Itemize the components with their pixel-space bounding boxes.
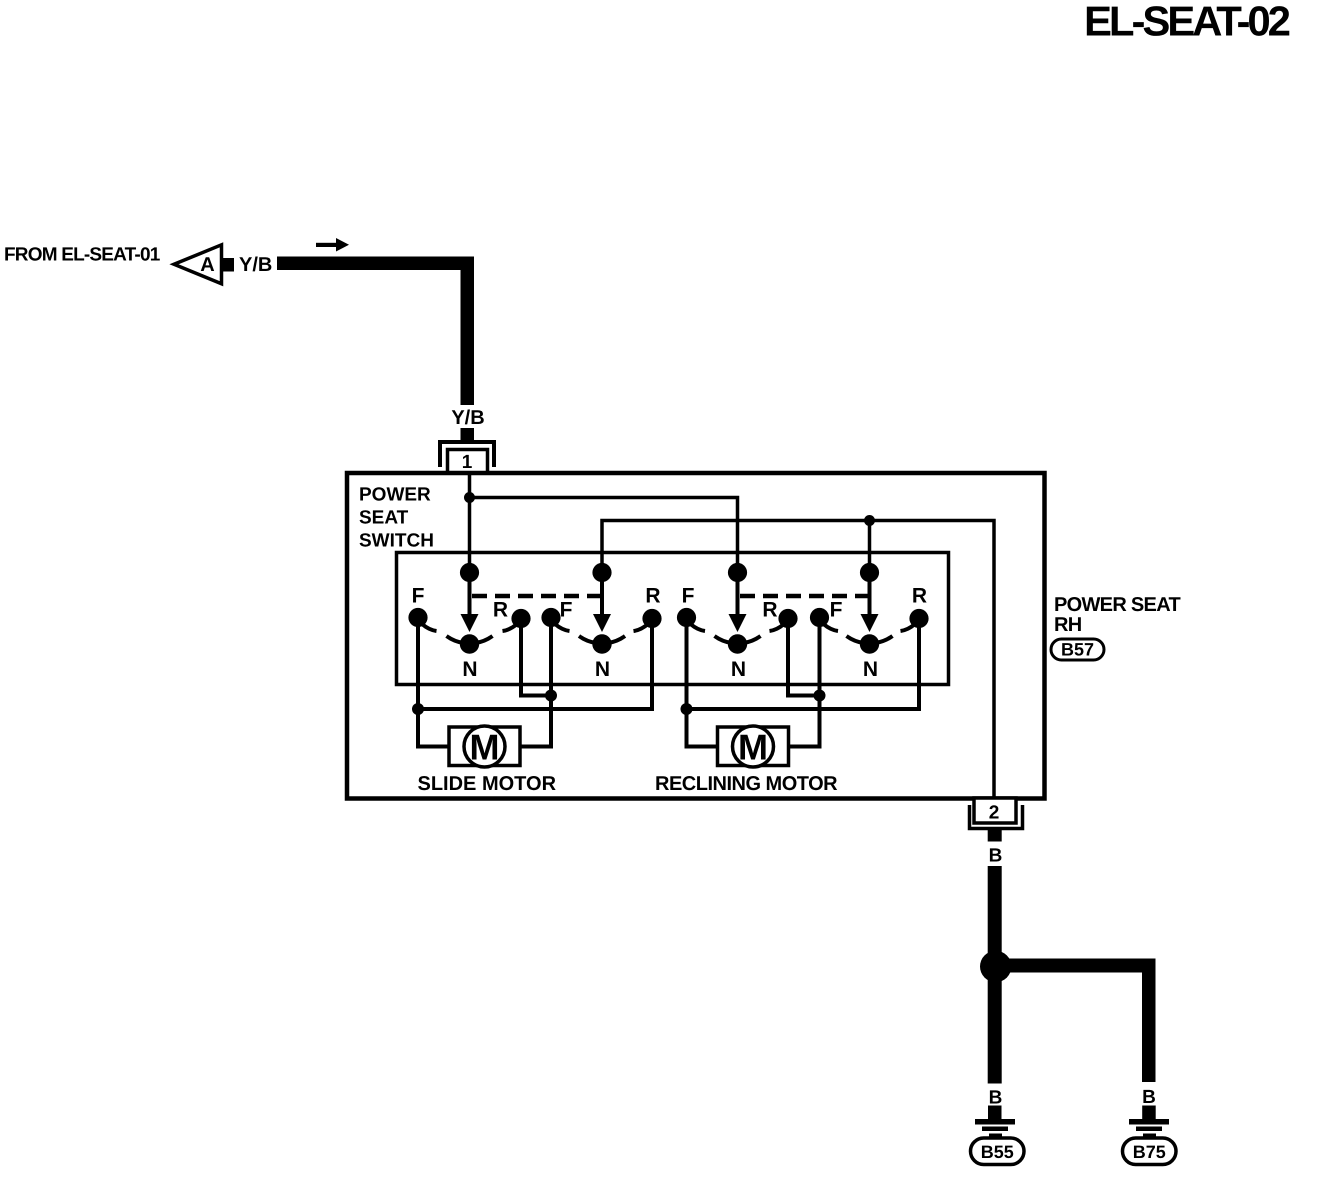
S1 N whiskers bbox=[447, 636, 464, 643]
svg-text:SWITCH: SWITCH bbox=[359, 531, 434, 552]
S3 contact F dot bbox=[677, 608, 696, 627]
S4 contact N dot bbox=[860, 634, 879, 653]
S1 contact F dot bbox=[408, 608, 427, 627]
svg-text:FROM EL-SEAT-01: FROM EL-SEAT-01 bbox=[4, 245, 161, 266]
wire pin 1 feed down bbox=[468, 473, 472, 572]
junction J2 on line B bbox=[864, 515, 875, 526]
junction J3 (F1/R2 to slide motor) bbox=[412, 703, 424, 715]
ground stub right bbox=[1142, 1106, 1156, 1120]
label POWER SEAT SWITCH bbox=[359, 485, 434, 552]
wire feed line B (switches S2,S4 to pin 2) bbox=[602, 521, 994, 799]
wire stub below connector 2 bbox=[988, 830, 1002, 842]
S4 contact F dot bbox=[810, 608, 829, 627]
svg-text:2: 2 bbox=[989, 803, 1000, 824]
S2 contact R dot bbox=[642, 609, 661, 628]
S1 F whisker bbox=[422, 624, 437, 631]
switch S3 (recline fwd) bbox=[677, 563, 798, 681]
wire J5 to R4 bbox=[687, 617, 920, 709]
S4 N whiskers bbox=[847, 636, 864, 643]
svg-text:B: B bbox=[989, 1088, 1003, 1109]
junction J1 bbox=[464, 492, 475, 503]
svg-text:R: R bbox=[762, 599, 777, 622]
reclining motor M2 bbox=[718, 726, 789, 768]
switch S2 (slide rev) bbox=[541, 563, 661, 681]
svg-text:Y/B: Y/B bbox=[451, 407, 484, 429]
svg-text:M: M bbox=[738, 727, 768, 768]
wire J3 to slide motor left bbox=[418, 709, 449, 747]
svg-text:R: R bbox=[645, 585, 660, 608]
wire J3 to R2 bbox=[418, 617, 652, 709]
svg-text:F: F bbox=[560, 599, 573, 622]
connector id B57 bbox=[1051, 639, 1104, 660]
svg-text:B57: B57 bbox=[1061, 640, 1094, 660]
connector 1 outer shield bbox=[440, 442, 494, 467]
wire to B55 (thick, left down) bbox=[988, 979, 1002, 1084]
S3 feed contact dot bbox=[728, 563, 747, 582]
S1 R whisker bbox=[503, 624, 518, 631]
svg-text:F: F bbox=[412, 585, 425, 608]
svg-text:M: M bbox=[470, 727, 500, 768]
ground id B55 bbox=[971, 1138, 1025, 1165]
wire S3-R down bbox=[788, 617, 820, 696]
svg-text:POWER SEAT: POWER SEAT bbox=[1054, 594, 1180, 616]
S1 wiper arrow bbox=[468, 572, 472, 615]
svg-text:F: F bbox=[682, 585, 695, 608]
connector 2 outer shield bbox=[970, 805, 1023, 829]
S3 wiper arrow bbox=[736, 572, 740, 615]
S4 F whisker bbox=[824, 624, 839, 631]
svg-text:N: N bbox=[863, 658, 878, 681]
power seat switch box bbox=[347, 473, 1045, 799]
S4 R whisker bbox=[901, 624, 916, 631]
wire S3-F down bbox=[685, 617, 689, 709]
svg-text:RECLINING MOTOR: RECLINING MOTOR bbox=[655, 773, 838, 795]
wire Y/B horizontal (thick) bbox=[277, 257, 474, 271]
wire Y/B vertical (thick) bbox=[461, 257, 475, 406]
wire stub at connector A bbox=[222, 258, 234, 272]
S2 N whiskers bbox=[579, 636, 596, 643]
svg-text:Y/B: Y/B bbox=[239, 254, 272, 276]
ground symbol left bbox=[975, 1119, 1015, 1138]
dashed gang link S1-S2 bbox=[472, 594, 601, 599]
S4 contact R dot bbox=[909, 609, 928, 628]
slide motor M1 bbox=[449, 726, 520, 768]
svg-text:N: N bbox=[595, 658, 610, 681]
S2 contact N dot bbox=[592, 634, 611, 653]
S3 N whiskers bbox=[715, 636, 732, 643]
direction arrow bbox=[316, 238, 349, 252]
S2 F whisker bbox=[555, 624, 570, 631]
svg-text:N: N bbox=[462, 658, 477, 681]
ground id B75 bbox=[1123, 1138, 1177, 1165]
ground symbol right bbox=[1129, 1119, 1169, 1138]
S2 R whisker bbox=[634, 624, 649, 631]
label POWER SEAT RH bbox=[1054, 594, 1180, 636]
S1 contact N dot bbox=[460, 634, 479, 653]
wire J5 to reclining motor left bbox=[687, 709, 718, 747]
junction J5 (F3/R4 to reclining motor) bbox=[681, 703, 693, 715]
wire B vertical (thick) bbox=[988, 866, 1002, 953]
svg-text:RH: RH bbox=[1054, 614, 1082, 636]
wire to B75 (thick, down) bbox=[1142, 959, 1156, 1083]
junction J4 (R1/F2 to slide motor) bbox=[545, 690, 557, 702]
S2 wiper arrow bbox=[600, 572, 604, 615]
svg-text:A: A bbox=[200, 254, 214, 276]
page connector A (triangle) bbox=[174, 245, 222, 284]
switch S1 (slide fwd) bbox=[408, 563, 530, 681]
svg-text:1: 1 bbox=[462, 452, 473, 473]
wire to B75 (thick, right) bbox=[1008, 959, 1156, 973]
wire S4-F down to reclining motor right bbox=[789, 617, 820, 747]
S3 contact N dot bbox=[728, 634, 747, 653]
S3 R whisker bbox=[770, 624, 785, 631]
ground stub left bbox=[988, 1106, 1002, 1120]
svg-text:B: B bbox=[989, 846, 1003, 867]
dashed gang link S3-S4 bbox=[740, 594, 869, 599]
S1 feed contact dot bbox=[460, 563, 479, 582]
svg-text:R: R bbox=[493, 599, 508, 622]
wire S1-F down bbox=[416, 617, 420, 709]
svg-text:R: R bbox=[912, 585, 927, 608]
svg-text:POWER: POWER bbox=[359, 485, 431, 506]
S4 wiper arrow bbox=[868, 572, 872, 615]
S2 feed contact dot bbox=[592, 563, 611, 582]
S3 contact R dot bbox=[778, 609, 797, 628]
svg-text:F: F bbox=[830, 599, 843, 622]
junction J6 (R3/F4 to reclining motor) bbox=[814, 690, 826, 702]
wire stub above connector 1 bbox=[461, 428, 475, 441]
S4 feed contact dot bbox=[860, 563, 879, 582]
svg-text:B75: B75 bbox=[1133, 1142, 1166, 1162]
svg-text:B55: B55 bbox=[981, 1142, 1014, 1162]
svg-text:SEAT: SEAT bbox=[359, 508, 409, 529]
S1 contact R dot bbox=[511, 609, 530, 628]
connector 2 pin box bbox=[974, 798, 1016, 823]
wire feed line A (to switch S3) bbox=[470, 498, 738, 573]
S2 contact F dot bbox=[541, 608, 560, 627]
wire S1-R down bbox=[521, 617, 551, 696]
connector 1 pin box bbox=[448, 450, 488, 474]
wire J2 to switch S4 feed bbox=[868, 521, 872, 573]
wire S2-F down to slide motor right bbox=[520, 617, 551, 747]
svg-text:N: N bbox=[731, 658, 746, 681]
S3 F whisker bbox=[691, 624, 706, 631]
inner switch contact box bbox=[397, 553, 949, 685]
switch S4 (recline rev) bbox=[810, 563, 929, 681]
ground junction dot bbox=[980, 951, 1011, 982]
svg-text:B: B bbox=[1142, 1087, 1156, 1108]
svg-text:SLIDE MOTOR: SLIDE MOTOR bbox=[418, 773, 557, 795]
svg-text:EL-SEAT-02: EL-SEAT-02 bbox=[1084, 0, 1290, 45]
